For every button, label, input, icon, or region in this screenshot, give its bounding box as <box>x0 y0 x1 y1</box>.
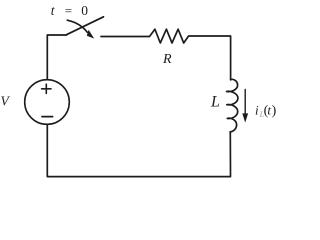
svg-text:i: i <box>255 103 259 118</box>
svg-text:=: = <box>65 3 72 18</box>
svg-text:L: L <box>210 94 220 111</box>
svg-text:0: 0 <box>81 3 88 18</box>
svg-text:R: R <box>162 52 172 67</box>
svg-text:): ) <box>272 104 277 119</box>
